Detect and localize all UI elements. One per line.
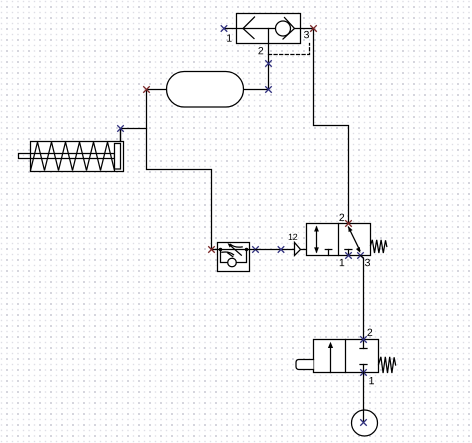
- node cylinder port: [118, 126, 124, 132]
- node V2 left port: [209, 247, 215, 253]
- wire V3 port1 to supply: [363, 373, 365, 423]
- node V1 port1: [346, 253, 352, 259]
- node V2 right port: [253, 247, 259, 253]
- 2/2 valve V3 plunger actuated spring return: [296, 340, 396, 374]
- node port1 U1: [221, 26, 227, 32]
- label 3 (U1): [304, 31, 309, 38]
- node tee at receiver right: [266, 87, 272, 93]
- wire from quick exhaust port 3 to valve V1 port 2: [314, 29, 349, 224]
- label 3 (V1): [365, 259, 370, 266]
- node supply connection: [361, 420, 367, 426]
- node pilot connection: [278, 247, 284, 253]
- node V3 port2: [361, 337, 367, 343]
- wire V1 port3 to bottom valve port 2: [361, 256, 364, 340]
- one-way flow control valve V2: [212, 243, 256, 272]
- cylinder A1 single-acting spring return: [19, 129, 124, 172]
- label 12: [289, 234, 293, 240]
- label 2 (U1): [258, 47, 263, 54]
- wire flow control to pilot of V1: [256, 249, 295, 251]
- node V3 port1: [361, 370, 367, 376]
- wire branch to cylinder port: [121, 129, 147, 142]
- arrowhead V3 left box: [328, 342, 333, 348]
- node V1 port2: [346, 221, 352, 227]
- pilot triangle V1: [295, 243, 307, 256]
- throttle arrowhead: [228, 243, 233, 247]
- label 2 (V3): [367, 329, 372, 336]
- arrowheads V1 right box diagonal: [348, 226, 352, 232]
- junction dots V2: [219, 248, 222, 251]
- node on port2 wire: [266, 61, 272, 67]
- quick exhaust valve U1: [224, 14, 314, 44]
- label 2 (V1): [339, 214, 344, 221]
- node port3 U1: [311, 26, 317, 32]
- label 1 (V1): [340, 259, 345, 266]
- node V1 port3: [358, 253, 364, 259]
- air receiver T1: [147, 72, 244, 108]
- 3/2 way valve V1 pilot operated spring return: [307, 224, 387, 256]
- wire quick exhaust port 2 down to receiver tee: [244, 44, 269, 90]
- compressed air supply P1: [352, 410, 378, 436]
- arrowheads V1 left box: [314, 226, 319, 232]
- label 1 (U1): [227, 34, 232, 41]
- pilot dashed line of quick exhaust: [269, 44, 310, 55]
- label 1 (V3): [369, 377, 374, 384]
- node receiver left port: [144, 87, 150, 93]
- wire from receiver left port down and right to flow control: [147, 90, 212, 250]
